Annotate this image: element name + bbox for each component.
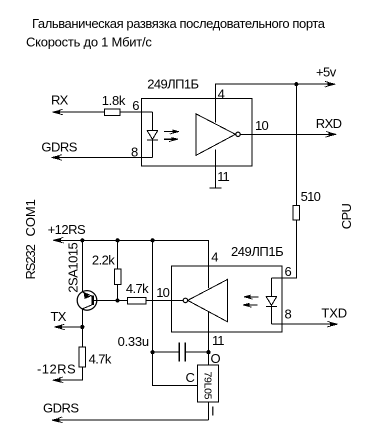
svg-text:O: O <box>211 351 221 366</box>
pin 11 wire (U1) <box>214 149 216 188</box>
wire I pin <box>208 402 210 420</box>
pin 11 wire (U2) to node O <box>208 312 210 353</box>
Q1 base wire <box>94 300 127 302</box>
svg-text:6: 6 <box>285 264 292 279</box>
wire GDRS (U1 pin 8) <box>53 157 152 159</box>
ground (U1 pin 11) <box>210 187 222 189</box>
pin 4 wire (U1) <box>215 84 332 122</box>
svg-text:2SA1015: 2SA1015 <box>65 242 80 292</box>
svg-text:COM1: COM1 <box>23 199 38 236</box>
arrowhead +12RS <box>53 238 64 244</box>
svg-text:Скорость до 1 Мбит/с: Скорость до 1 Мбит/с <box>26 35 152 50</box>
svg-text:8: 8 <box>131 145 138 160</box>
bubble A1 <box>236 132 240 136</box>
opto LED D2 inside U2 <box>266 278 277 324</box>
svg-text:I: I <box>211 404 215 419</box>
svg-text:GDRS: GDRS <box>43 400 79 415</box>
wire 510 to U2 pin 6 <box>272 220 297 278</box>
svg-text:79L05: 79L05 <box>202 372 214 400</box>
regulator U3 79L05 box <box>197 365 218 402</box>
svg-text:10: 10 <box>156 285 169 300</box>
junction dot rail/2.2k <box>116 238 120 242</box>
svg-text:C: C <box>186 370 195 385</box>
arrowhead -12RS <box>53 377 64 383</box>
svg-text:GDRS: GDRS <box>41 140 77 155</box>
wire RX input <box>54 111 152 113</box>
wire RXD output (U1 pin 10) <box>240 133 333 135</box>
arrowhead RX <box>53 109 64 115</box>
wire C pin <box>153 352 198 385</box>
resistor R3 2.2k <box>114 269 121 285</box>
svg-text:249ЛП1Б: 249ЛП1Б <box>147 76 198 91</box>
svg-text:10: 10 <box>255 118 268 133</box>
svg-text:4: 4 <box>218 87 225 102</box>
Q1 base bar <box>91 295 93 305</box>
resistor R5 4.7k wires <box>55 327 83 380</box>
arrowhead GDRS bottom <box>52 417 63 423</box>
svg-text:510: 510 <box>301 189 321 204</box>
svg-text:4.7k: 4.7k <box>126 281 149 296</box>
svg-text:4: 4 <box>211 250 218 265</box>
capacitor C1 plates <box>179 343 185 362</box>
inverter A2 inside U2 (triangle + bubble) <box>188 279 228 321</box>
svg-text:TXD: TXD <box>321 306 347 321</box>
IC U1 box 249ЛП1Б <box>141 99 252 167</box>
junction dot +5v/510 <box>294 82 298 86</box>
light arrows U2 (pointing left) <box>249 297 258 305</box>
svg-text:+12RS: +12RS <box>48 222 86 237</box>
junction dot rail/emitter <box>80 238 84 242</box>
IC U2 box 249ЛП1Б <box>172 266 283 332</box>
svg-text:1.8k: 1.8k <box>102 93 126 108</box>
Q1 collector wire <box>81 309 83 327</box>
resistor R5 4.7k <box>79 347 86 367</box>
resistor R3 2.2k wires <box>117 240 119 300</box>
svg-text:4.7k: 4.7k <box>89 352 112 367</box>
svg-text:RXD: RXD <box>316 116 342 131</box>
arrowhead TXD <box>327 321 338 327</box>
wire TXD (U2 pin 8) <box>272 323 335 325</box>
svg-text:Гальваническая развязка послед: Гальваническая развязка последовательног… <box>32 16 326 31</box>
resistor R2 510 <box>293 205 300 220</box>
arrowhead RXD <box>326 132 337 138</box>
Q1 emitter wire <box>81 240 83 292</box>
capacitor C1 0.33u wires <box>153 351 209 353</box>
wire GDRS bottom <box>54 419 209 421</box>
svg-text:6: 6 <box>132 98 139 113</box>
svg-text:CPU: CPU <box>339 203 354 229</box>
wire O pin <box>208 352 210 365</box>
transistor Q1 2SA1015 <box>77 291 97 311</box>
svg-text:8: 8 <box>285 307 292 322</box>
svg-text:11: 11 <box>217 169 229 184</box>
svg-text:RS232: RS232 <box>23 244 38 279</box>
resistor R4 4.7k <box>127 298 146 305</box>
svg-text:TX: TX <box>51 309 67 324</box>
wire +12RS rail <box>55 240 209 288</box>
svg-text:249ЛП1Б: 249ЛП1Б <box>231 244 283 259</box>
Q1 emitter diagonal + arrow <box>82 292 92 297</box>
arrowhead GDRS <box>52 155 63 161</box>
light arrows U1 (pointing right) <box>164 132 173 140</box>
svg-text:+5v: +5v <box>316 64 337 79</box>
svg-text:-12RS: -12RS <box>37 361 76 376</box>
wire TX <box>56 326 82 328</box>
wire rail to capacitor node <box>152 240 154 352</box>
wire +5v to resistor 510 <box>295 84 297 205</box>
inverter A1 inside U1 (triangle + bubble) <box>196 114 236 156</box>
bubble A2 <box>183 298 187 302</box>
junction dot base/2.2k <box>116 298 120 302</box>
svg-text:2.2k: 2.2k <box>92 252 115 267</box>
svg-text:0.33u: 0.33u <box>118 334 149 349</box>
junction dot rail/cap line <box>151 238 155 242</box>
resistor R1 1.8k <box>105 109 121 116</box>
svg-text:11: 11 <box>212 333 224 348</box>
+5v arrowhead <box>325 81 336 87</box>
opto LED D1 inside U1 <box>147 112 158 157</box>
arrowhead TX <box>54 324 65 330</box>
Q1 collector diagonal <box>82 305 92 309</box>
wire R4 to U2 pin 10 <box>146 300 183 302</box>
junction dot node O <box>206 350 210 354</box>
svg-text:RX: RX <box>51 93 69 108</box>
junction dot TX/collector <box>80 325 84 329</box>
junction dot cap left <box>151 350 155 354</box>
